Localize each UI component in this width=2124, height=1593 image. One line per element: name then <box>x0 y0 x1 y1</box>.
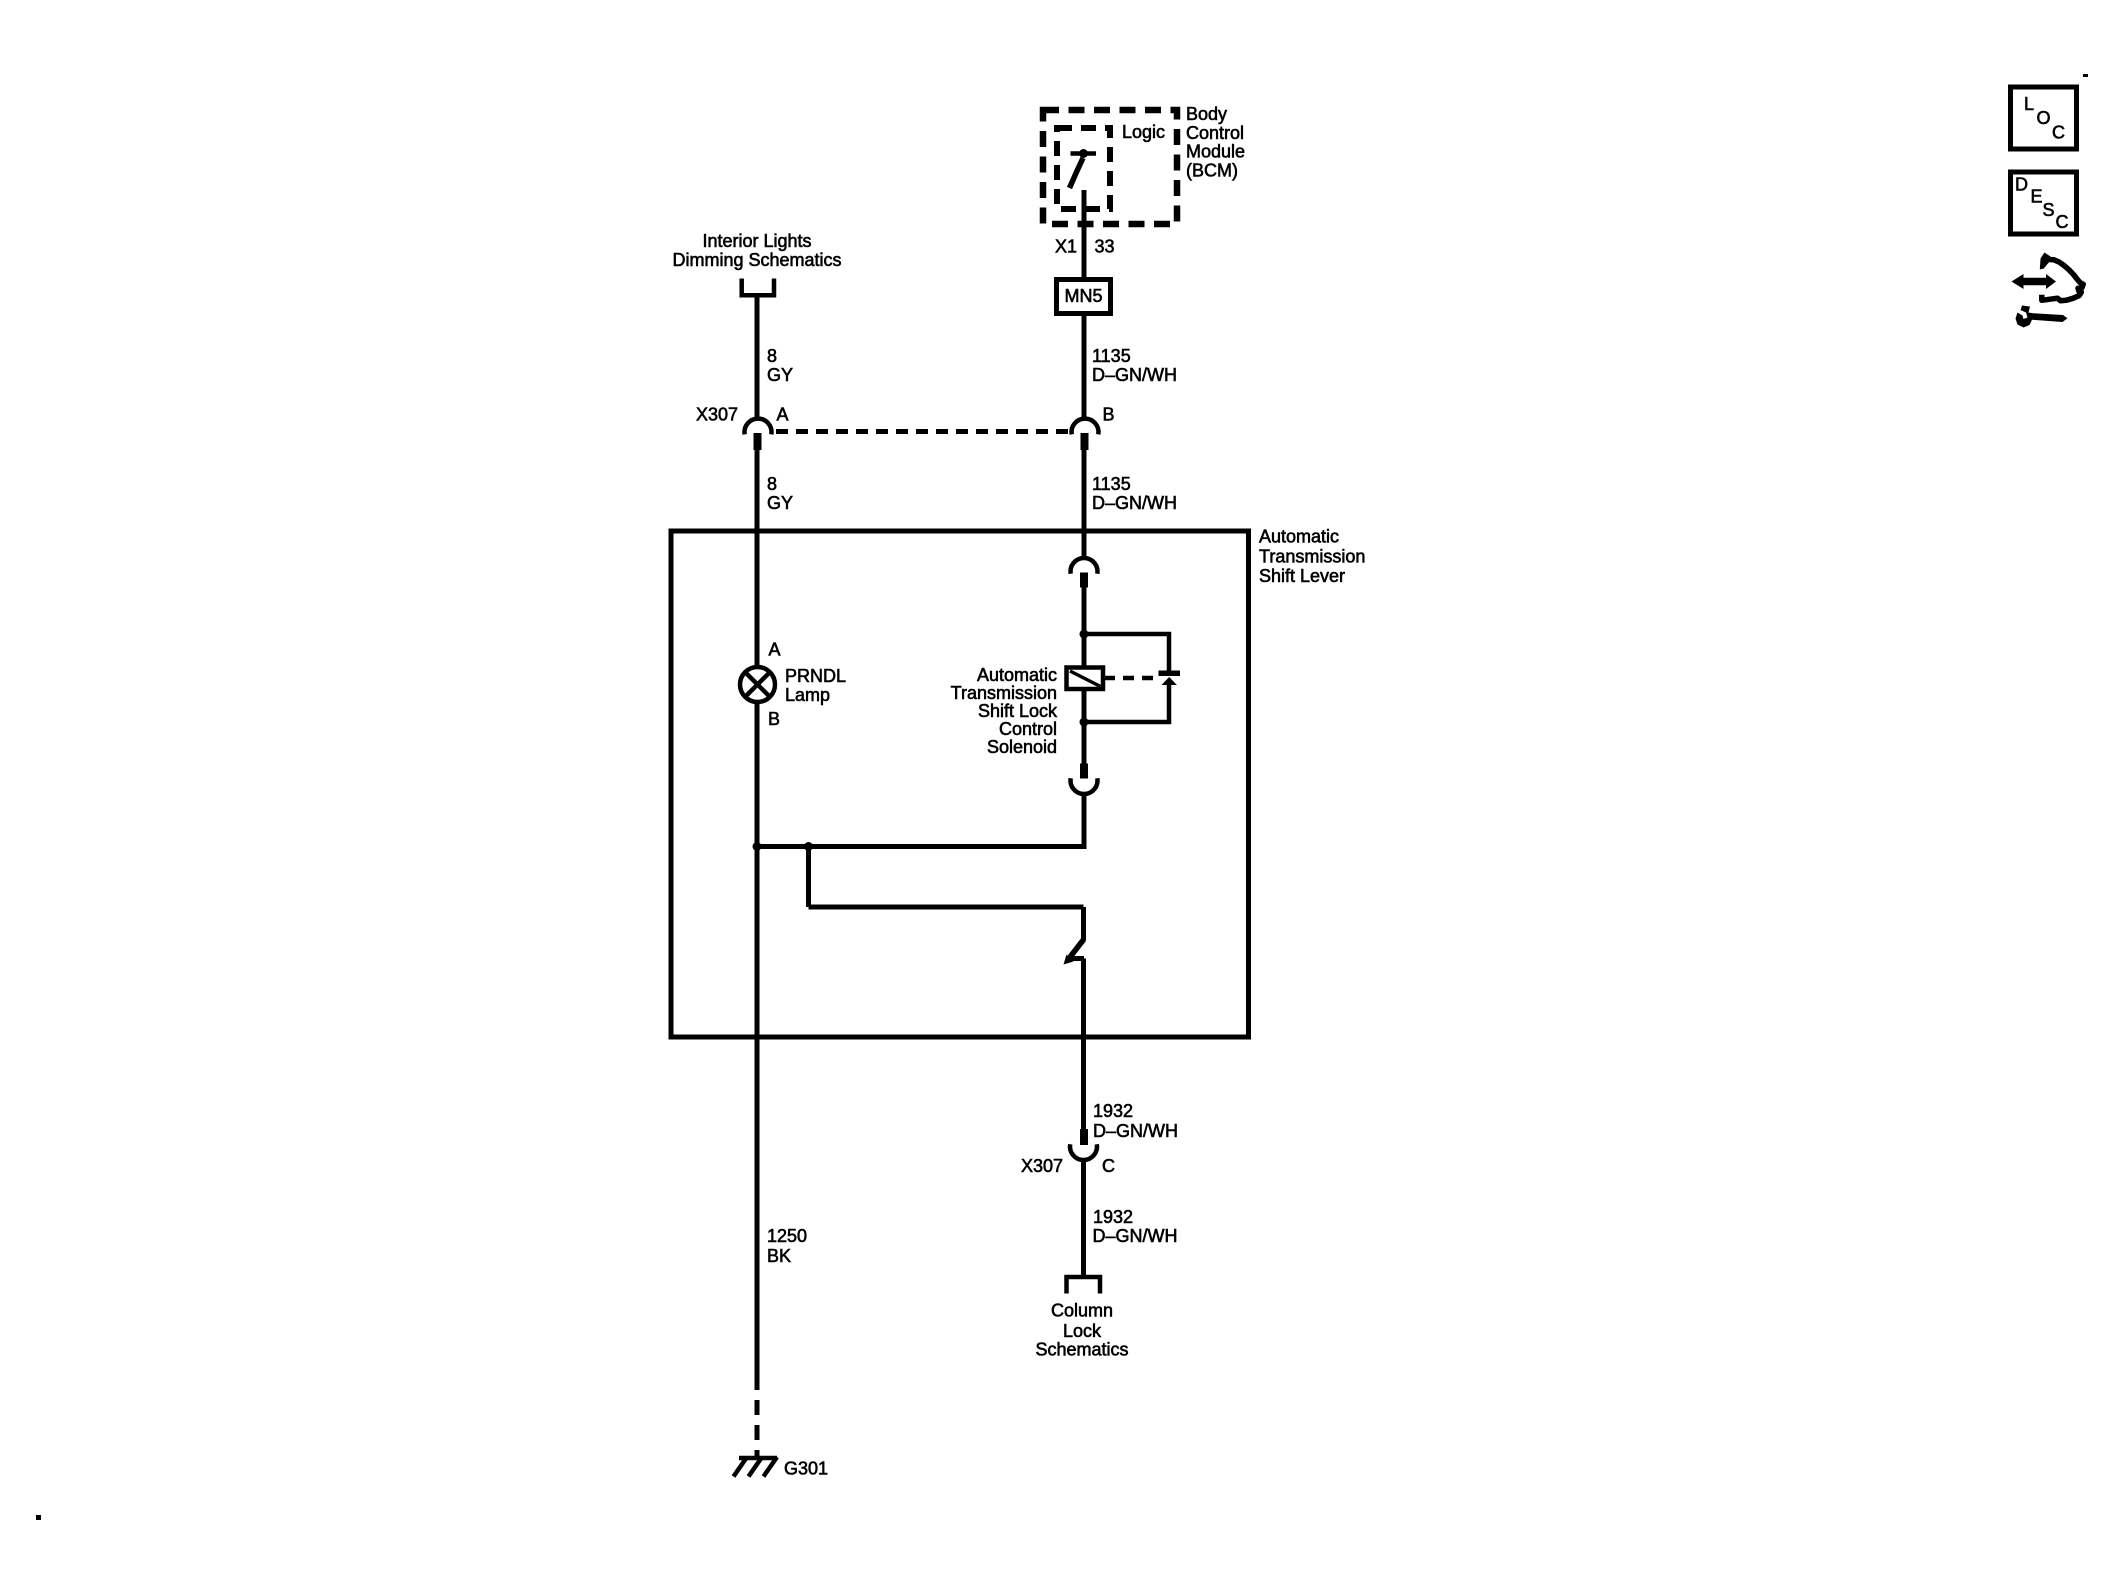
svg-text:L: L <box>2024 94 2034 114</box>
svg-text:G301: G301 <box>784 1459 828 1479</box>
dashed mechanical link solenoid to diode <box>1104 676 1158 681</box>
svg-text:Schematics: Schematics <box>1035 1340 1128 1360</box>
svg-text:Lamp: Lamp <box>785 685 830 705</box>
wire from PRNDL lamp B to splice and ground run <box>755 702 760 1038</box>
svg-text:Transmission: Transmission <box>951 683 1057 703</box>
module Automatic Transmission Shift Lever (solid outline box) <box>671 531 1249 1037</box>
svg-text:C: C <box>2052 123 2065 143</box>
wire label 1250 BK <box>767 1226 807 1266</box>
node Column Lock Schematics (off-page reference) <box>1035 1301 1128 1360</box>
lamp PRNDL Lamp <box>740 667 775 702</box>
junction node (solenoid top) <box>1080 630 1089 639</box>
label Body Control Module (BCM) <box>1186 104 1245 181</box>
wire label 1135 D-GN/WH (above X307 B) <box>1092 346 1177 385</box>
svg-text:PRNDL: PRNDL <box>785 666 846 686</box>
svg-text:Transmission: Transmission <box>1259 547 1365 567</box>
switch (driver) inside BCM logic block <box>1070 149 1097 188</box>
svg-text:Interior Lights: Interior Lights <box>702 231 811 251</box>
wire 1250 BK from lamp circuit to ground <box>755 1037 760 1390</box>
svg-text:1135: 1135 <box>1092 474 1131 494</box>
wire 1135 D-GN/WH from MN5 to X307 pin B <box>1082 313 1087 419</box>
wire branch down from bus <box>806 847 811 908</box>
diode D1 (clamp) cathode bar and anode triangle <box>1159 671 1181 686</box>
svg-text:Solenoid: Solenoid <box>987 737 1057 757</box>
svg-text:X307: X307 <box>696 405 738 425</box>
connector X307 pin A (half-circle and terminal) <box>745 419 772 450</box>
wire label 1932 D-GN/WH (below X307 C) <box>1093 1207 1178 1246</box>
junction node (branch to park switch) <box>804 842 813 851</box>
svg-text:D–GN/WH: D–GN/WH <box>1093 1226 1178 1246</box>
svg-text:Module: Module <box>1186 142 1245 162</box>
svg-text:D–GN/WH: D–GN/WH <box>1093 1121 1178 1141</box>
wire loop from diode (bottom leg) <box>1084 684 1169 722</box>
icon button LOC <box>2011 87 2077 149</box>
svg-text:Control: Control <box>1186 123 1244 143</box>
wire from park switch through case to X307 pin C <box>1081 959 1086 1131</box>
svg-text:C: C <box>2056 212 2069 232</box>
wire label 8 GY (below X307 A) <box>767 474 793 513</box>
switch S1 park position switch (blade with arrow) <box>1064 939 1085 965</box>
svg-text:X307: X307 <box>1021 1156 1063 1176</box>
wire from Interior Lights to connector X307 pin A <box>755 295 760 419</box>
dashed connector tie line X307 A-B <box>776 429 1069 434</box>
svg-text:O: O <box>2037 108 2051 128</box>
junction node (solenoid bottom) <box>1080 718 1089 727</box>
wire solenoid bottom to exit connector <box>1082 689 1087 764</box>
svg-text:1250: 1250 <box>767 1226 807 1246</box>
svg-text:BK: BK <box>767 1246 791 1266</box>
solenoid coil Automatic Transmission Shift Lock Control Solenoid <box>1067 668 1104 690</box>
svg-text:D–GN/WH: D–GN/WH <box>1092 365 1177 385</box>
svg-text:D: D <box>2015 175 2028 195</box>
svg-text:X1: X1 <box>1055 237 1077 257</box>
wire solenoid return down to internal bus <box>1082 793 1087 849</box>
in-assembly connector (entry, solenoid feed) half-circle and terminal <box>1071 558 1098 588</box>
wire jog over to park switch <box>809 905 1084 910</box>
wire from BCM logic to pin X1-33 and MN5 <box>1082 190 1087 278</box>
wire label 8 GY (above X307 A) <box>767 346 793 385</box>
node Interior Lights Dimming Schematics (off-page reference) <box>672 231 841 270</box>
svg-text:Dimming Schematics: Dimming Schematics <box>672 250 841 270</box>
svg-text:MN5: MN5 <box>1064 286 1102 306</box>
connector MN5 <box>1057 280 1111 314</box>
icon button DESC <box>2011 172 2077 234</box>
stray mark (top right) <box>2083 74 2088 77</box>
svg-text:8: 8 <box>767 346 777 366</box>
wire down to park switch blade <box>1081 907 1086 940</box>
svg-text:Body: Body <box>1186 104 1227 124</box>
svg-text:Automatic: Automatic <box>1259 527 1339 547</box>
svg-text:1932: 1932 <box>1093 1207 1133 1227</box>
stray mark (bottom left) <box>36 1515 41 1520</box>
svg-text:C: C <box>1102 1156 1115 1176</box>
in-assembly connector (exit, solenoid return) terminal and half-circle <box>1071 764 1098 795</box>
svg-text:S: S <box>2043 200 2055 220</box>
ground G301 symbol <box>734 1457 778 1477</box>
icon arrow-wrench (service info) <box>2012 253 2084 328</box>
svg-text:E: E <box>2031 187 2043 207</box>
Logic block dashed outline inside BCM <box>1057 128 1110 209</box>
svg-text:1932: 1932 <box>1093 1101 1133 1121</box>
svg-text:B: B <box>1103 405 1115 425</box>
svg-text:Logic: Logic <box>1122 122 1165 142</box>
connector X307 pin C (terminal and half-circle) <box>1070 1129 1097 1160</box>
svg-text:GY: GY <box>767 493 793 513</box>
svg-text:(BCM): (BCM) <box>1186 161 1238 181</box>
label Automatic Transmission Shift Lock Control Solenoid <box>951 665 1058 757</box>
svg-text:33: 33 <box>1095 237 1115 257</box>
svg-text:Shift Lock: Shift Lock <box>978 701 1058 721</box>
svg-text:A: A <box>769 640 781 660</box>
svg-text:D–GN/WH: D–GN/WH <box>1092 493 1177 513</box>
svg-text:Automatic: Automatic <box>977 665 1057 685</box>
label Automatic Transmission Shift Lever <box>1259 527 1365 587</box>
svg-text:B: B <box>768 709 780 729</box>
svg-text:Shift Lever: Shift Lever <box>1259 566 1345 586</box>
svg-text:Column: Column <box>1051 1301 1113 1321</box>
svg-text:1135: 1135 <box>1092 346 1131 366</box>
svg-text:8: 8 <box>767 474 777 494</box>
off-page connector symbol (Column Lock) <box>1067 1277 1101 1294</box>
svg-text:GY: GY <box>767 365 793 385</box>
pin label X1 33 <box>1055 237 1115 257</box>
off-page connector symbol (Interior Lights) <box>742 279 774 296</box>
junction node on lamp ground wire <box>753 842 762 851</box>
wire label 1932 D-GN/WH (above X307 C) <box>1093 1101 1178 1141</box>
module U1 Body Control Module (BCM) dashed outline <box>1043 110 1177 224</box>
wire 1135 D-GN/WH from X307 B into shift lever assembly <box>1082 450 1087 559</box>
wire from entry connector to solenoid <box>1082 587 1087 668</box>
wire 1932 D-GN/WH to Column Lock Schematics <box>1081 1159 1086 1277</box>
wire loop to clamp diode (top leg) <box>1084 634 1169 671</box>
wire label 1135 D-GN/WH (below X307 B) <box>1092 474 1177 513</box>
wire internal bus (lamp B / solenoid return tie) <box>757 844 1084 849</box>
svg-text:Lock: Lock <box>1063 1321 1102 1341</box>
label PRNDL Lamp <box>785 666 846 705</box>
svg-text:A: A <box>777 405 789 425</box>
svg-text:Control: Control <box>999 719 1057 739</box>
wire 8 GY from X307 A into shift lever assembly <box>755 450 760 667</box>
dashed wire segment to ground G301 <box>755 1400 760 1456</box>
connector X307 pin B (half-circle and terminal) <box>1072 419 1099 450</box>
